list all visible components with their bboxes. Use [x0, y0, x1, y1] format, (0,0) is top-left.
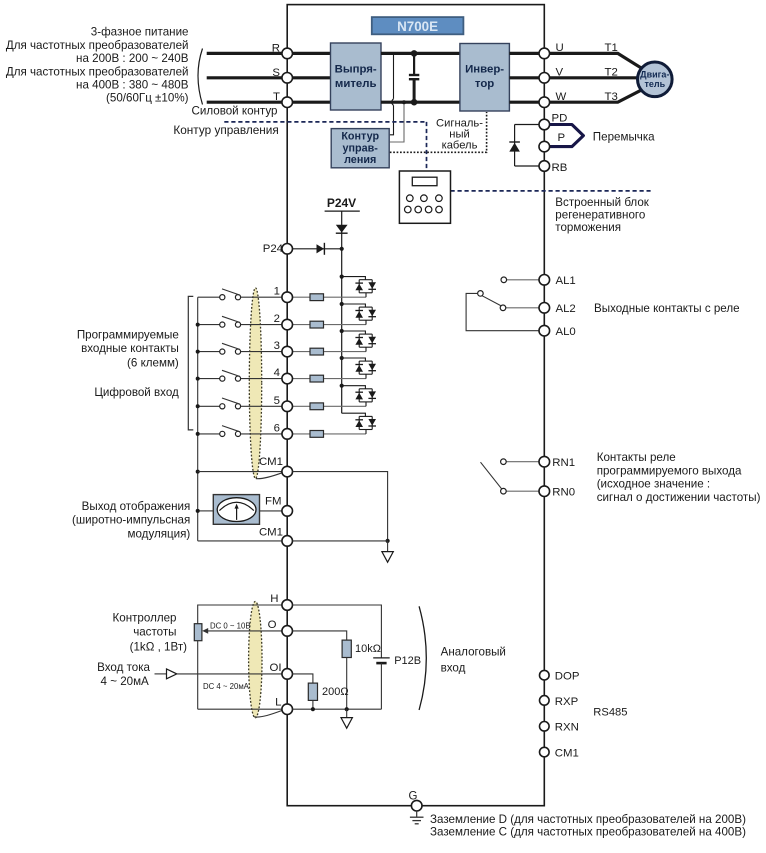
resistor R2: [310, 321, 324, 328]
svg-text:тор: тор: [475, 78, 494, 90]
terminal CM1 lower: [282, 536, 293, 547]
wire meter to FM: [260, 510, 282, 512]
svg-text:S: S: [272, 67, 280, 79]
svg-text:OI: OI: [269, 662, 281, 674]
junction: [402, 100, 406, 104]
contact AL1: [501, 277, 507, 283]
ground symbol analog: [346, 709, 348, 717]
terminal RN1: [539, 456, 550, 467]
optocoupler feed wire 4: [342, 358, 366, 361]
terminal RXP: [540, 696, 550, 706]
wire input 2: [241, 324, 282, 326]
optocoupler drop wire 1: [365, 293, 367, 297]
wire to OI: [177, 673, 282, 675]
svg-text:AL0: AL0: [556, 326, 576, 338]
svg-text:на 200В : 200 ~ 240В: на 200В : 200 ~ 240В: [76, 52, 189, 65]
wire current source: [155, 673, 167, 675]
svg-text:4: 4: [274, 367, 280, 379]
junction: [411, 50, 418, 57]
earth ground symbol: [416, 811, 418, 817]
svg-text:T1: T1: [605, 42, 618, 54]
optocoupler feed wire 3: [342, 331, 366, 334]
wire input 5: [241, 405, 282, 407]
terminal 5: [282, 401, 293, 412]
wire W output: [509, 90, 641, 102]
terminal AL1: [539, 275, 550, 286]
potentiometer RV1: [194, 624, 202, 641]
svg-text:2: 2: [274, 313, 280, 325]
relay lever AL: [482, 296, 501, 306]
terminal 1: [282, 292, 293, 303]
junction: [340, 356, 344, 360]
motor M: [638, 62, 673, 97]
terminal AL0: [539, 325, 550, 336]
operator keypad: [399, 171, 450, 223]
terminal V: [539, 73, 550, 84]
svg-text:5: 5: [274, 395, 280, 407]
terminal O: [282, 626, 293, 637]
svg-text:AL2: AL2: [556, 303, 576, 315]
svg-text:торможения: торможения: [555, 221, 621, 234]
wire input 6 to optocoupler: [292, 433, 366, 435]
svg-text:вход: вход: [441, 662, 466, 675]
svg-text:CM1: CM1: [259, 456, 283, 468]
svg-text:Вход тока: Вход тока: [97, 661, 150, 674]
svg-text:AL1: AL1: [556, 275, 576, 287]
wiper arrow: [208, 630, 282, 632]
svg-text:(широтно-импульсная: (широтно-импульсная: [72, 514, 190, 527]
terminal FM: [282, 506, 293, 517]
wire CM1 lower to ground: [292, 540, 387, 542]
junction: [196, 323, 200, 327]
terminal W: [539, 97, 550, 108]
junction: [340, 247, 344, 251]
terminal 2: [282, 319, 293, 330]
wire H to reference loop: [198, 605, 282, 624]
terminal H: [282, 600, 293, 611]
junction: [411, 99, 418, 106]
svg-text:Выход отображения: Выход отображения: [82, 500, 191, 513]
contact RN0: [501, 488, 507, 494]
svg-text:Выпря-: Выпря-: [335, 64, 377, 76]
input switch S1: [198, 296, 220, 298]
junction: [340, 329, 344, 333]
wire input 3 to optocoupler: [292, 351, 366, 353]
svg-text:RB: RB: [552, 162, 568, 174]
terminal R: [282, 48, 293, 59]
resistor R3: [310, 348, 324, 355]
svg-text:Инвер-: Инвер-: [465, 64, 504, 76]
svg-text:Контур: Контур: [341, 131, 379, 143]
svg-text:RXN: RXN: [555, 722, 579, 734]
svg-text:CM1: CM1: [259, 527, 283, 539]
terminal CM1: [540, 747, 550, 757]
svg-text:3: 3: [274, 340, 280, 352]
svg-text:(50/60Гц ±10%): (50/60Гц ±10%): [106, 92, 189, 105]
wire DC bus positive: [381, 52, 460, 55]
junction: [345, 707, 349, 711]
junction: [196, 350, 200, 354]
optocoupler U1: [359, 279, 372, 281]
svg-text:модуляция): модуляция): [128, 527, 191, 540]
wire CM1 lower left: [198, 540, 282, 542]
terminal P: [539, 141, 550, 152]
bracket digital inputs: [188, 296, 193, 430]
inverter block: [460, 44, 510, 112]
svg-text:DOP: DOP: [555, 671, 580, 683]
wire RN1 contact: [506, 461, 539, 463]
wire V output: [509, 76, 637, 79]
terminal 6: [282, 429, 293, 440]
svg-text:Контур управления: Контур управления: [173, 123, 278, 137]
junction: [196, 377, 200, 381]
resistor R6: [310, 431, 324, 438]
svg-text:T2: T2: [605, 66, 618, 78]
terminal PD: [539, 119, 550, 130]
diode D1 braking: [514, 125, 516, 167]
wire AL common to AL0: [466, 293, 539, 330]
contact AL2: [500, 305, 506, 311]
rectifier block: [331, 43, 382, 110]
terminal RN0: [539, 486, 550, 497]
svg-text:Выходные контакты с реле: Выходные контакты с реле: [594, 302, 740, 315]
input switch S6: [198, 433, 220, 435]
capacitor C1: [413, 53, 415, 74]
optocoupler drop wire 3: [365, 347, 367, 351]
wire OI to 200: [292, 674, 313, 683]
brace for supply lines: [198, 49, 203, 105]
terminal L: [282, 704, 293, 715]
svg-text:200Ω: 200Ω: [322, 686, 349, 698]
svg-text:Встроенный блок: Встроенный блок: [555, 196, 649, 209]
svg-text:ления: ления: [344, 154, 376, 166]
svg-text:N700E: N700E: [397, 19, 438, 34]
svg-text:DC 0 ~ 10В: DC 0 ~ 10В: [210, 621, 251, 630]
svg-text:FM: FM: [265, 496, 281, 508]
control circuit boundary dashed: [224, 121, 426, 123]
terminal CM1 upper: [282, 466, 293, 477]
svg-text:Силовой контур: Силовой контур: [192, 105, 278, 118]
optocoupler drop wire 4: [365, 374, 367, 378]
svg-text:сигнал о достижении частоты): сигнал о достижении частоты): [597, 491, 761, 504]
terminal 4: [282, 373, 293, 384]
svg-text:1: 1: [274, 286, 280, 298]
svg-text:6: 6: [274, 422, 280, 434]
wire DC bus negative: [381, 101, 460, 104]
wire S input: [207, 76, 332, 79]
wire input 3: [241, 351, 282, 353]
svg-text:U: U: [556, 42, 564, 54]
svg-text:(исходное значение :: (исходное значение :: [597, 478, 710, 491]
svg-text:V: V: [556, 67, 564, 79]
svg-text:на 400В : 380 ~ 480В: на 400В : 380 ~ 480В: [76, 79, 189, 92]
relay lever RN: [481, 462, 502, 489]
svg-text:(1kΩ , 1Вт): (1kΩ , 1Вт): [130, 641, 188, 654]
contact AL common: [478, 291, 484, 297]
control circuit block: [331, 129, 389, 168]
svg-text:тель: тель: [644, 79, 665, 89]
wire H to battery: [292, 605, 381, 658]
wire input 4 to optocoupler: [292, 378, 366, 380]
terminal OI: [282, 669, 293, 680]
svg-text:Для частотных преобразователей: Для частотных преобразователей: [6, 39, 189, 52]
analog input brace: [419, 606, 426, 710]
optocoupler U5: [359, 388, 372, 390]
svg-text:программируемого выхода: программируемого выхода: [597, 464, 742, 477]
svg-text:H: H: [270, 593, 278, 605]
wire PD to diode: [515, 124, 540, 126]
optocoupler U6: [359, 415, 372, 417]
svg-text:PD: PD: [552, 113, 568, 125]
svg-text:RS485: RS485: [593, 707, 627, 719]
wire U output: [509, 53, 641, 68]
optocoupler drop wire 6: [365, 430, 367, 434]
wire R input: [207, 52, 332, 55]
svg-text:Двига-: Двига-: [640, 70, 669, 80]
svg-text:P: P: [558, 132, 566, 144]
shield drain wire to CM1: [256, 473, 282, 479]
wire input 1 to optocoupler: [292, 296, 366, 298]
svg-text:10kΩ: 10kΩ: [355, 643, 381, 655]
wire T input: [207, 101, 332, 104]
optocoupler U4: [359, 360, 372, 362]
ground symbol signal: [387, 541, 389, 552]
terminal T: [282, 97, 293, 108]
diode D2 on P24: [317, 244, 325, 253]
shield drain wire to L: [254, 710, 282, 717]
cable shield ellipse analog: [249, 602, 262, 718]
terminal G: [411, 800, 422, 811]
wire L bottom rail: [198, 708, 282, 710]
wire diode to RB: [515, 165, 540, 167]
svg-text:Перемычка: Перемычка: [593, 131, 655, 144]
svg-text:Для частотных преобразователей: Для частотных преобразователей: [6, 65, 189, 78]
junction: [196, 432, 200, 436]
wire input 4: [241, 378, 282, 380]
svg-text:Заземление D (для частотных пр: Заземление D (для частотных преобразоват…: [430, 813, 746, 826]
svg-text:P24V: P24V: [327, 196, 356, 210]
svg-text:Контакты реле: Контакты реле: [597, 451, 676, 464]
jumper between PD and P: [550, 125, 584, 147]
svg-text:регенеративного: регенеративного: [555, 209, 645, 222]
switch common vertical wire: [197, 297, 199, 541]
svg-text:митель: митель: [335, 78, 377, 90]
resistor 10k: [342, 640, 351, 657]
inverter enclosure frame: [287, 5, 544, 806]
svg-text:Аналоговый: Аналоговый: [441, 646, 506, 659]
cable shield ellipse digital inputs: [249, 288, 261, 479]
svg-text:L: L: [275, 696, 281, 708]
svg-text:DC 4 ~ 20мА: DC 4 ~ 20мА: [203, 682, 250, 691]
wire AL2 contact: [506, 307, 540, 309]
terminal DOP: [540, 670, 550, 680]
junction: [340, 384, 344, 388]
optocoupler feed wire 5: [342, 386, 366, 389]
svg-text:T: T: [273, 91, 280, 103]
svg-text:P12B: P12B: [394, 655, 421, 667]
wire input 1: [241, 296, 282, 298]
svg-text:Цифровой вход: Цифровой вход: [94, 386, 179, 399]
svg-text:Контроллер: Контроллер: [113, 612, 177, 625]
terminal RXN: [540, 722, 550, 732]
svg-text:R: R: [272, 42, 280, 54]
svg-text:W: W: [556, 91, 567, 103]
junction: [196, 509, 200, 513]
wire to control block from DC+: [390, 53, 394, 134]
svg-text:CM1: CM1: [555, 748, 579, 760]
junction: [340, 275, 344, 279]
optocoupler feed wire 6: [342, 413, 366, 416]
wire L to battery bottom: [292, 708, 381, 710]
wire input 2 to optocoupler: [292, 324, 366, 326]
optocoupler U2: [359, 306, 372, 308]
wire O to 10k: [292, 631, 346, 640]
junction: [196, 404, 200, 408]
wire RN0 contact: [506, 490, 539, 492]
svg-text:P24: P24: [263, 243, 283, 255]
contact RN1: [501, 459, 507, 465]
resistor R5: [310, 403, 324, 410]
terminal S: [282, 73, 293, 84]
wire input 6: [241, 433, 282, 435]
meter FM: [213, 495, 259, 525]
terminal RB: [539, 161, 550, 172]
terminal U: [539, 48, 550, 59]
terminal AL2: [539, 303, 550, 314]
input switch S5: [198, 405, 220, 407]
svg-text:RN1: RN1: [552, 457, 575, 469]
input switch S3: [198, 351, 220, 353]
svg-text:4 ~ 20мА: 4 ~ 20мА: [101, 675, 150, 688]
wire input 5 to optocoupler: [292, 405, 366, 407]
svg-text:3-фазное питание: 3-фазное питание: [91, 26, 189, 39]
optocoupler feed wire 2: [342, 304, 366, 307]
junction: [340, 302, 344, 306]
svg-text:RN0: RN0: [552, 487, 575, 499]
junction: [386, 539, 390, 543]
wire CM1 to ground: [292, 472, 387, 541]
svg-text:RXP: RXP: [555, 696, 578, 708]
battery P12B: [373, 657, 390, 659]
junction: [196, 470, 200, 474]
svg-text:кабель: кабель: [442, 139, 478, 151]
title box N700E: [372, 17, 464, 34]
current source arrow: [167, 669, 177, 679]
svg-text:Заземление C (для частотных пр: Заземление C (для частотных преобразоват…: [430, 826, 746, 839]
input switch S4: [198, 378, 220, 380]
svg-text:O: O: [268, 619, 277, 631]
signal cable dotted wire: [390, 112, 487, 152]
wire meter common: [198, 510, 214, 512]
optocoupler U3: [359, 333, 372, 335]
terminal 3: [282, 346, 293, 357]
wire AL1 contact: [507, 279, 540, 281]
optocoupler feed wire 1: [342, 277, 366, 280]
resistor 200: [308, 683, 317, 700]
svg-text:T3: T3: [605, 91, 618, 103]
wire to control block from DC-: [390, 102, 404, 142]
optocoupler drop wire 2: [365, 320, 367, 324]
resistor R4: [310, 375, 324, 382]
optocoupler drop wire 5: [365, 402, 367, 406]
svg-text:частоты: частоты: [133, 626, 176, 639]
input switch S2: [198, 324, 220, 326]
junction: [311, 707, 315, 711]
P24 feed vertical wire: [341, 249, 343, 413]
wire P24: [292, 248, 341, 250]
svg-text:управ-: управ-: [343, 142, 379, 154]
resistor R1: [310, 294, 324, 301]
wire common to CM1: [198, 471, 282, 473]
svg-text:Программируемые: Программируемые: [77, 329, 179, 342]
svg-text:входные контакты: входные контакты: [81, 342, 179, 355]
svg-text:(6 клемм): (6 клемм): [127, 356, 179, 369]
